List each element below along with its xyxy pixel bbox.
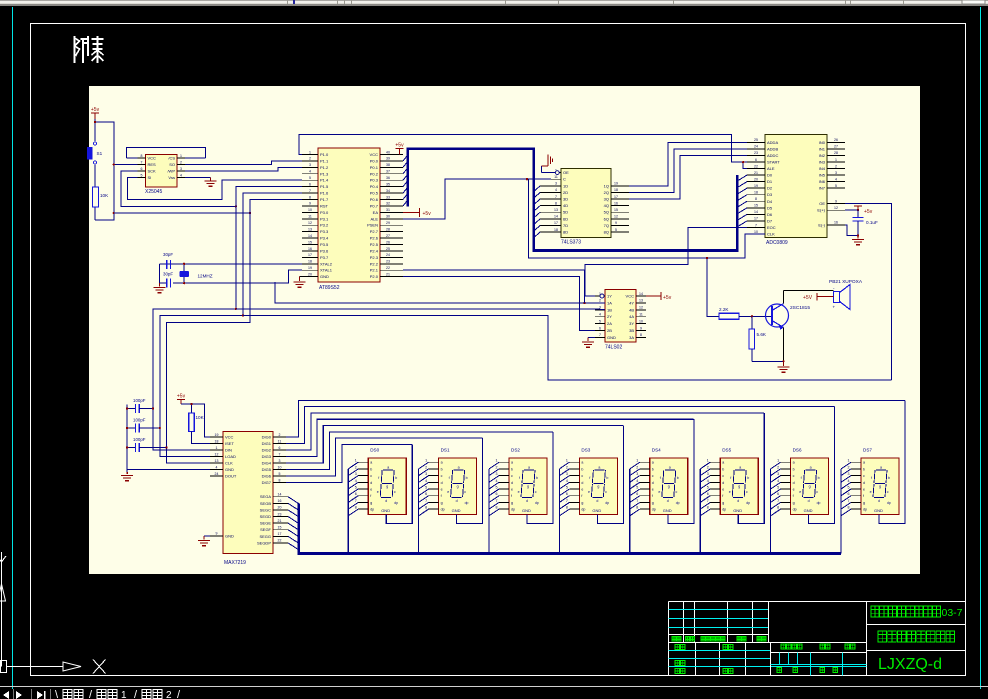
svg-text:SEGDP: SEGDP [257,540,271,545]
svg-text:16: 16 [614,201,618,205]
svg-text:d: d [370,481,372,485]
svg-text:DS5: DS5 [722,448,731,453]
svg-text:3: 3 [425,472,427,476]
svg-text:IN1: IN1 [819,146,826,151]
svg-text:f: f [449,476,450,480]
svg-text:8: 8 [309,195,311,199]
svg-text:d: d [385,499,387,503]
svg-text:1: 1 [835,158,837,162]
svg-text:40: 40 [386,150,390,154]
svg-text:e: e [511,488,513,492]
svg-text:EA: EA [373,210,379,215]
svg-text:GND: GND [522,508,531,513]
svg-text:30: 30 [386,215,390,219]
svg-text:4A: 4A [629,314,634,319]
svg-text:2Q: 2Q [604,190,609,195]
svg-text:c: c [676,490,678,494]
svg-text:IN4: IN4 [819,166,826,171]
svg-text:PSEN: PSEN [367,223,378,228]
svg-text:3: 3 [566,472,568,476]
svg-text:DIG3: DIG3 [262,454,272,459]
svg-text:7: 7 [755,223,757,227]
svg-text:a: a [880,466,882,470]
svg-text:/CS: /CS [168,156,175,161]
svg-text:34: 34 [386,189,390,193]
svg-text:19: 19 [215,433,219,437]
svg-text:12MHZ: 12MHZ [198,274,213,279]
svg-text:ADC0809: ADC0809 [766,240,788,246]
svg-text:P3.2: P3.2 [320,223,329,228]
svg-text:2: 2 [777,465,779,469]
svg-text:GND: GND [874,508,883,513]
svg-text:5: 5 [615,228,617,232]
svg-text:CLK: CLK [767,232,775,237]
svg-text:5: 5 [279,472,281,476]
svg-text:6: 6 [141,167,143,171]
svg-text:c: c [370,474,372,478]
svg-text:5: 5 [566,486,568,490]
svg-text:f: f [722,494,723,498]
svg-text:5.6K: 5.6K [757,332,767,337]
svg-text:d: d [596,499,598,503]
svg-text:d: d [441,481,443,485]
svg-text:2: 2 [425,465,427,469]
svg-text:D7: D7 [767,218,773,223]
svg-text:17: 17 [278,532,282,536]
svg-text:17: 17 [614,195,618,199]
svg-text:D3: D3 [767,192,773,197]
svg-text:D4: D4 [767,199,773,204]
svg-text:GND: GND [225,533,234,538]
svg-text:DIG6: DIG6 [262,474,272,479]
svg-text:15: 15 [278,526,282,530]
svg-text:c: c [581,474,583,478]
svg-text:IN5: IN5 [819,173,826,178]
svg-text:8: 8 [848,506,850,510]
svg-text:3D: 3D [563,197,568,202]
svg-text:23: 23 [386,260,390,264]
svg-text:d: d [722,481,724,485]
svg-text:19: 19 [308,266,312,270]
svg-text:g: g [581,501,583,505]
svg-text:+5v: +5v [663,295,672,301]
svg-text:2: 2 [835,164,837,168]
svg-text:c: c [441,474,443,478]
svg-text:SO: SO [169,162,175,167]
svg-text:15: 15 [308,240,312,244]
svg-text:35: 35 [386,182,390,186]
svg-text:17: 17 [754,217,758,221]
svg-text:2D: 2D [563,190,568,195]
svg-text:+5V: +5V [803,295,813,301]
svg-text:E(+): E(+) [817,208,825,213]
svg-text:7D: 7D [563,223,568,228]
svg-text:P2.6: P2.6 [370,236,379,241]
svg-text:c: c [652,474,654,478]
svg-text:15: 15 [754,204,758,208]
svg-text:g: g [370,501,372,505]
svg-text:g: g [722,501,724,505]
svg-text:8: 8 [777,506,779,510]
svg-text:8: 8 [636,506,638,510]
svg-text:3: 3 [309,163,311,167]
svg-text:b: b [863,467,865,471]
svg-text:11: 11 [554,175,558,179]
svg-text:26: 26 [834,138,838,142]
svg-text:dp: dp [887,501,891,505]
svg-text:a: a [669,466,671,470]
svg-text:1: 1 [121,690,127,699]
svg-text:1A: 1A [607,300,612,305]
svg-text:d: d [667,499,669,503]
svg-text:6: 6 [755,158,757,162]
svg-text:dp: dp [863,508,867,512]
svg-text:dp: dp [511,508,515,512]
svg-text:P0.3: P0.3 [370,178,379,183]
svg-text:4: 4 [636,479,638,483]
svg-text:20: 20 [308,272,312,276]
svg-text:g: g [457,485,459,489]
svg-text:X25045: X25045 [145,189,162,195]
svg-text:SEGE: SEGE [260,521,271,526]
svg-text:P1.5: P1.5 [320,184,329,189]
svg-text:P3.4: P3.4 [320,236,329,241]
svg-text:2: 2 [309,157,311,161]
svg-text:DIG4: DIG4 [262,461,272,466]
svg-text:f: f [652,494,653,498]
svg-text:PB21 XUPOXA: PB21 XUPOXA [829,279,863,285]
svg-text:RES: RES [148,162,157,167]
svg-text:a: a [810,466,812,470]
svg-text:P2.5: P2.5 [370,242,379,247]
svg-text:DS7: DS7 [863,448,872,453]
svg-text:4: 4 [835,177,837,181]
svg-text:f: f [370,494,371,498]
svg-text:14: 14 [639,292,643,296]
svg-text:b: b [747,476,749,480]
svg-text:1: 1 [309,150,311,154]
svg-text:c: c [511,474,513,478]
svg-text:1D: 1D [563,183,568,188]
svg-text:g: g [597,485,599,489]
svg-text:7: 7 [636,499,638,503]
svg-text:e: e [377,490,379,494]
svg-text:dp: dp [605,501,609,505]
svg-text:15: 15 [614,208,618,212]
svg-text:SEGA: SEGA [260,494,271,499]
svg-text:4: 4 [707,479,709,483]
svg-text:1: 1 [355,459,357,463]
svg-text:ALE: ALE [370,216,378,221]
svg-text:36: 36 [386,176,390,180]
svg-text:P1.6: P1.6 [320,191,329,196]
svg-text:1: 1 [777,459,779,463]
svg-text:a: a [370,461,372,465]
svg-text:21: 21 [278,519,282,523]
svg-text:16: 16 [308,247,312,251]
svg-text:12: 12 [639,306,643,310]
svg-text:SEGF: SEGF [260,527,271,532]
svg-text:12: 12 [614,215,618,219]
svg-text:a: a [598,466,600,470]
svg-text:+5v: +5v [177,393,186,399]
svg-text:1Y: 1Y [607,294,612,299]
svg-text:1Q: 1Q [604,183,609,188]
svg-text:13: 13 [308,227,312,231]
svg-text:GND: GND [592,508,601,513]
svg-text:+5v: +5v [395,143,404,149]
svg-text:C: C [563,177,566,182]
svg-text:DS4: DS4 [652,448,661,453]
svg-text:22: 22 [754,164,758,168]
svg-text:P2.7: P2.7 [370,229,379,234]
svg-text:IN7: IN7 [819,186,826,191]
svg-text:AT89S52: AT89S52 [319,285,340,291]
svg-text:4: 4 [599,313,601,317]
svg-text:e: e [652,488,654,492]
svg-text:2: 2 [707,465,709,469]
svg-text:10K: 10K [196,415,205,420]
svg-text:1: 1 [566,459,568,463]
svg-text:6: 6 [599,326,601,330]
svg-text:10: 10 [754,230,758,234]
svg-text:P0.0: P0.0 [370,158,379,163]
svg-text:28: 28 [834,151,838,155]
svg-text:3: 3 [777,472,779,476]
svg-text:dp: dp [746,501,750,505]
svg-text:GND: GND [733,508,742,513]
svg-text:7: 7 [141,160,143,164]
svg-text:5: 5 [496,486,498,490]
svg-text:c: c [722,474,724,478]
svg-text:e: e [447,490,449,494]
svg-text:DS1: DS1 [441,448,450,453]
svg-text:5: 5 [141,173,143,177]
svg-text:e: e [370,488,372,492]
svg-text:b: b [677,476,679,480]
svg-text:P2.2: P2.2 [370,261,379,266]
svg-text:g: g [511,501,513,505]
svg-text:7: 7 [848,499,850,503]
svg-text:19: 19 [754,184,758,188]
svg-text:CLK: CLK [225,461,233,466]
svg-text:c: c [535,490,537,494]
svg-text:3: 3 [496,472,498,476]
svg-text:11: 11 [278,439,282,443]
svg-text:4: 4 [216,465,218,469]
svg-text:2: 2 [566,465,568,469]
svg-text:f: f [730,476,731,480]
svg-text:4: 4 [309,170,311,174]
svg-text:a: a [581,461,583,465]
svg-text:DIG7: DIG7 [262,480,272,485]
svg-text:GND: GND [663,508,672,513]
svg-text:P2.3: P2.3 [370,255,379,260]
svg-text:b: b [370,467,372,471]
svg-text:8: 8 [141,154,143,158]
svg-text:a: a [387,466,389,470]
svg-text:4Y: 4Y [629,300,634,305]
svg-text:OE: OE [563,170,569,175]
svg-text:dp: dp [370,508,374,512]
svg-text:P3.5: P3.5 [320,242,329,247]
svg-text:2: 2 [166,690,172,699]
svg-text:D0: D0 [767,173,773,178]
svg-text:3: 3 [355,472,357,476]
svg-text:DIN: DIN [225,448,232,453]
svg-text:g: g [441,501,443,505]
svg-text:f: f [511,494,512,498]
svg-text:1B: 1B [607,307,612,312]
svg-text:GND: GND [320,274,329,279]
svg-text:a: a [652,461,654,465]
svg-text:7: 7 [309,189,311,193]
svg-text:6: 6 [425,492,427,496]
svg-text:9: 9 [216,532,218,536]
svg-text:g: g [668,485,670,489]
svg-text:5: 5 [636,486,638,490]
svg-text:P0.6: P0.6 [370,197,379,202]
svg-text:10: 10 [278,465,282,469]
svg-text:9: 9 [835,199,837,203]
svg-text:b: b [793,467,795,471]
svg-text:P1.2: P1.2 [320,165,329,170]
svg-text:6: 6 [279,446,281,450]
svg-text:IN3: IN3 [819,159,826,164]
svg-text:5: 5 [777,486,779,490]
svg-text:6: 6 [707,492,709,496]
svg-text:DIG1: DIG1 [262,441,272,446]
svg-text:DS0: DS0 [370,448,379,453]
svg-text:E(-): E(-) [818,222,825,227]
svg-text:MAX7219: MAX7219 [224,560,246,566]
svg-text:8: 8 [640,333,642,337]
svg-text:DOUT: DOUT [225,474,237,479]
svg-text:16: 16 [278,499,282,503]
svg-text:11: 11 [308,215,312,219]
svg-text:5: 5 [835,184,837,188]
svg-text:S1: S1 [97,151,103,156]
svg-text:9: 9 [640,326,642,330]
svg-text:7: 7 [777,499,779,503]
svg-text:100pF: 100pF [133,437,146,442]
svg-text:2: 2 [636,465,638,469]
svg-text:1: 1 [425,459,427,463]
svg-text:DIG2: DIG2 [262,448,272,453]
svg-text:32: 32 [386,202,390,206]
svg-text:P3.1: P3.1 [320,216,329,221]
svg-text:4: 4 [777,479,779,483]
svg-text:P1.7: P1.7 [320,197,329,202]
svg-text:13: 13 [554,208,558,212]
svg-text:P3.3: P3.3 [320,229,329,234]
svg-text:IN6: IN6 [819,179,826,184]
svg-text:SEGC: SEGC [260,507,271,512]
svg-text:8D: 8D [563,230,568,235]
svg-text:6: 6 [309,182,311,186]
svg-text:3: 3 [848,472,850,476]
svg-text:f: f [801,476,802,480]
svg-text:dp: dp [441,508,445,512]
svg-text:P1.1: P1.1 [320,158,329,163]
svg-text:24: 24 [386,253,390,257]
svg-text:3A: 3A [629,335,634,340]
svg-text:14: 14 [554,215,558,219]
svg-text:24: 24 [215,472,219,476]
svg-text:25: 25 [754,138,758,142]
svg-text:GND: GND [607,335,616,340]
svg-text:6: 6 [496,492,498,496]
svg-text:/WP: /WP [167,169,175,174]
svg-text:14: 14 [308,234,312,238]
svg-text:33: 33 [386,195,390,199]
svg-text:+: + [833,305,836,310]
svg-text:DS6: DS6 [793,448,802,453]
svg-text:D5: D5 [767,205,773,210]
svg-text:D2: D2 [767,186,773,191]
svg-text:dp: dp [465,501,469,505]
svg-text:4: 4 [848,479,850,483]
svg-text:d: d [652,481,654,485]
svg-text:26: 26 [386,240,390,244]
svg-text:b: b [606,476,608,480]
svg-text:2: 2 [180,160,182,164]
svg-text:e: e [722,488,724,492]
svg-text:a: a [528,466,530,470]
svg-text:EOC: EOC [767,225,776,230]
svg-text:b: b [466,476,468,480]
svg-text:14: 14 [278,493,282,497]
svg-text:18: 18 [308,260,312,264]
svg-text:7: 7 [355,499,357,503]
svg-text:4: 4 [355,479,357,483]
svg-text:27: 27 [386,234,390,238]
svg-text:18: 18 [554,228,558,232]
svg-text:8: 8 [555,201,557,205]
svg-text:d: d [878,499,880,503]
svg-text:SI: SI [148,175,152,180]
svg-text:10: 10 [639,319,643,323]
svg-text:8: 8 [566,506,568,510]
svg-text:2B: 2B [607,328,612,333]
svg-text:g: g [527,485,529,489]
svg-text:4: 4 [425,479,427,483]
svg-text:6: 6 [777,492,779,496]
svg-text:e: e [658,490,660,494]
svg-text:GND: GND [804,508,813,513]
svg-text:4: 4 [555,188,557,192]
svg-text:P2.1: P2.1 [370,268,379,273]
svg-text:P3.6: P3.6 [320,248,329,253]
svg-text:VCC: VCC [148,156,157,161]
svg-text:VCC: VCC [370,152,379,157]
svg-text:25: 25 [386,247,390,251]
svg-text:8: 8 [355,506,357,510]
svg-text:b: b [441,467,443,471]
svg-text:START: START [767,159,780,164]
svg-text:f: f [441,494,442,498]
svg-text:16: 16 [834,221,838,225]
svg-text:d: d [456,499,458,503]
svg-text:5: 5 [309,176,311,180]
svg-text:DS3: DS3 [581,448,590,453]
svg-text:7: 7 [707,499,709,503]
svg-text:2Y: 2Y [607,314,612,319]
svg-text:28: 28 [386,227,390,231]
svg-text:dp: dp [793,508,797,512]
svg-text:g: g [652,501,654,505]
svg-text:30pF: 30pF [163,272,173,277]
